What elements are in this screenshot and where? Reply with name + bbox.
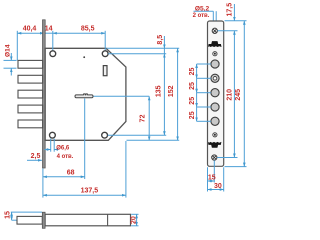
mounting hole bottom-right (102, 132, 108, 138)
body divider (bottom view) (107, 214, 109, 226)
body (bottom view) (45, 214, 130, 226)
bolt hole circle 5 (211, 117, 219, 125)
svg-text:210: 210 (227, 89, 234, 101)
dimension 135 vertical line (163, 54, 165, 136)
screw hole top (Ø5,2) (212, 28, 217, 33)
svg-text:25: 25 (189, 68, 196, 76)
leader screw2 right (217, 157, 237, 159)
extension line left end 40,4 (16, 31, 18, 61)
dimension Ø14 vertical line (10, 53, 12, 60)
leader: keyhole to 72 line (94, 95, 150, 97)
dimension 20 vertical line (136, 214, 138, 226)
svg-text:2 отв.: 2 отв. (193, 13, 210, 19)
dimension 20 extensions (131, 213, 138, 215)
svg-text:17,5: 17,5 (226, 3, 233, 17)
mounting hole bottom-left (50, 132, 56, 138)
dimension 85,5 line (53, 32, 105, 34)
svg-text:40,4: 40,4 (23, 25, 37, 32)
mounting hole top-left Ø6,6 (50, 51, 56, 57)
svg-text:15: 15 (208, 175, 216, 182)
bolt hole circle 1 (211, 60, 219, 68)
faceplate (bottom view) (42, 212, 45, 228)
svg-text:15: 15 (4, 211, 11, 219)
dimension 15 line (strip) (208, 180, 215, 182)
dimension 152 vertical line (177, 48, 179, 140)
svg-text:135: 135 (155, 85, 162, 97)
svg-text:25: 25 (189, 111, 196, 119)
dimension 68 line (43, 176, 85, 178)
dimension 137,5 line (43, 194, 126, 196)
extension: body top to right (107, 47, 180, 49)
svg-text:30: 30 (214, 183, 222, 190)
dimension 210 line (233, 31, 235, 158)
extension: body bottom to right (127, 139, 180, 141)
extension strip bottom right (225, 166, 247, 168)
extension strip right edge down (223, 167, 225, 191)
dimension Ø6,6 arrow line (45, 149, 51, 151)
extension line hole2 (104, 31, 106, 52)
bolt hole circle 3 (211, 89, 219, 97)
dimension 72 vertical line (148, 96, 150, 140)
extension body right edge down (125, 141, 127, 198)
leader circle3 (197, 92, 211, 94)
svg-text:68: 68 (67, 169, 75, 176)
bolt hole circle 2 (with ring) (211, 74, 219, 82)
keyhole bottom (strip, flipped) (208, 142, 222, 148)
mounting hole top-right (102, 51, 108, 57)
dimension 14 line (44, 32, 53, 34)
bolt slat 5 (18, 120, 43, 128)
dimension 8,5 vertical line (163, 36, 165, 48)
faceplate strip (208, 21, 224, 166)
extension plate bottom down (42, 169, 44, 198)
svg-text:152: 152 (168, 85, 175, 97)
bolt slat 4 (18, 105, 43, 113)
vertical slot (103, 66, 107, 76)
dimension 30 line (strip) (208, 189, 224, 191)
bolt hole circle 4 (211, 103, 219, 111)
leader circle4 (197, 106, 211, 108)
dimension Ø14 extension bottom (4, 67, 17, 69)
leader shelf under Ø5,2 (194, 10, 214, 12)
extension line hole1 (52, 31, 54, 51)
dimension 17,5 line (233, 4, 235, 21)
leader screw1 right (218, 30, 238, 32)
small circle with square 2 (213, 133, 217, 137)
dimension 40,4 line (17, 32, 44, 34)
leader circle2 (197, 77, 211, 79)
svg-text:20: 20 (131, 216, 138, 224)
svg-text:2,5: 2,5 (31, 153, 41, 160)
bolt slat 2 (18, 75, 43, 83)
svg-text:85,5: 85,5 (81, 25, 95, 32)
dimension Ø6,6 extension lines (50, 139, 52, 152)
faceplate edge-on (left plate of main view) (43, 20, 46, 168)
screw hole bottom (Ø5,2) (212, 155, 217, 160)
dimension 25 chain line (196, 64, 198, 78)
dimension 245 line (243, 21, 245, 167)
svg-text:4 отв.: 4 отв. (57, 154, 74, 160)
svg-text:25: 25 (189, 97, 196, 105)
extension strip top right (225, 20, 247, 22)
dimension 15 extension (plate top level) (11, 211, 42, 213)
dimension 15 bottom tick (12, 219, 17, 221)
extension strip left edge down (207, 167, 209, 191)
lock body outline (45, 48, 126, 140)
extension screw2 down (213, 160, 215, 182)
keyhole (lever key profile, main view) (75, 94, 93, 98)
extension: bottom-right hole to right (108, 134, 166, 136)
leader circle1 (197, 63, 211, 65)
svg-text:Ø6,6: Ø6,6 (56, 146, 70, 152)
svg-text:245: 245 (235, 89, 242, 101)
svg-text:14: 14 (45, 25, 53, 32)
svg-text:137,5: 137,5 (81, 188, 99, 195)
rivet dot (83, 56, 85, 58)
keyhole top (strip) (208, 41, 222, 47)
dimension 2,5 arrow to plate (27, 159, 42, 161)
svg-text:25: 25 (189, 82, 196, 90)
svg-text:Ø14: Ø14 (4, 44, 11, 57)
dimension 15 vertical line (11, 212, 13, 220)
bolt (bottom view) (17, 216, 42, 224)
svg-text:8,5: 8,5 (157, 35, 164, 45)
extension keyhole down (84, 99, 86, 180)
extension: top-right hole to right (108, 53, 166, 55)
bolt slat 3 (18, 90, 43, 98)
svg-text:72: 72 (140, 114, 147, 122)
bolt slat 1 (18, 60, 43, 68)
dimension Ø14 extension top (4, 59, 17, 61)
small circle with square 1 (213, 52, 217, 56)
leader circle5 (197, 120, 211, 122)
Ø5,2 leader verticals (212, 11, 214, 29)
